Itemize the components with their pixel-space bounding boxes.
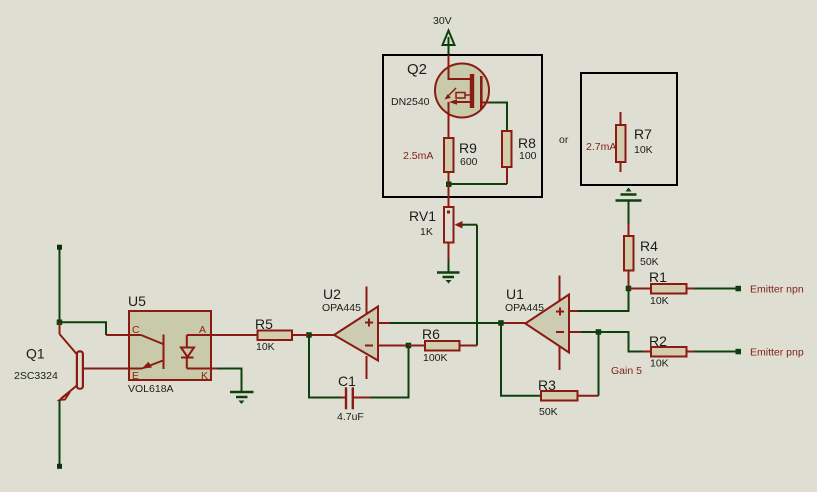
wire U1 - input (569, 331, 581, 333)
capacitor C1 (309, 335, 409, 423)
resistor R7 (616, 112, 653, 172)
resistor R5 (211, 316, 309, 353)
svg-text:10K: 10K (650, 295, 669, 307)
ground symbol (inverted) below R7 box (616, 188, 642, 225)
wire junction down to U1 + input (578, 289, 629, 312)
svg-text:50K: 50K (640, 256, 659, 268)
wire RV1 wiper down to R6 right (476, 225, 478, 346)
wire C pin stub (106, 334, 129, 336)
terminal Emitter pnp (736, 349, 742, 355)
svg-text:2SC3324: 2SC3324 (14, 370, 58, 382)
svg-text:Emitter npn: Emitter npn (750, 284, 804, 296)
svg-text:100K: 100K (423, 352, 448, 364)
svg-text:R9: R9 (459, 140, 477, 156)
subcircuit box Q2 (383, 55, 542, 197)
wire U5 K pin to ground (211, 368, 217, 370)
wire U2 output (309, 334, 334, 336)
svg-text:30V: 30V (433, 15, 452, 27)
svg-text:600: 600 (460, 156, 478, 168)
wire U1 output to node (501, 322, 525, 324)
node R6 left / C1 (406, 343, 412, 349)
op-amp U1 (505, 276, 569, 371)
wire gate of Q2 to R8 (489, 103, 507, 132)
svg-text:50K: 50K (539, 406, 558, 418)
junction Q1 collector (57, 320, 63, 326)
wire node down to R3 (501, 323, 541, 396)
wire R9 junction down to RV1 (448, 184, 450, 207)
svg-text:Q2: Q2 (407, 61, 427, 78)
resistor R3 (538, 377, 599, 418)
node U1 minus (596, 329, 602, 335)
wire U1 + input (569, 310, 578, 312)
svg-text:R6: R6 (422, 326, 440, 342)
transistor Q2 (depletion MOSFET) (435, 55, 489, 138)
svg-text:U5: U5 (128, 293, 146, 309)
subcircuit box R7 (or) (581, 73, 677, 185)
svg-text:E: E (132, 370, 139, 382)
terminal Emitter npn (736, 286, 742, 292)
svg-text:Gain 5: Gain 5 (611, 365, 642, 377)
optocoupler U5 (128, 293, 211, 395)
svg-text:10K: 10K (650, 358, 669, 370)
potentiometer RV1 (409, 207, 477, 259)
wire 30V to Q2 box (448, 37, 450, 55)
svg-text:C1: C1 (338, 373, 356, 389)
wire U2 + input to U1 output node (378, 322, 390, 324)
junction R4/R1 (626, 286, 632, 292)
ground below U5 K (230, 392, 254, 404)
svg-text:10K: 10K (256, 341, 275, 353)
resistor R8 (502, 131, 537, 184)
node U1 output (498, 320, 504, 326)
svg-text:R2: R2 (649, 333, 667, 349)
svg-text:or: or (559, 134, 569, 146)
svg-text:VOL618A: VOL618A (128, 383, 174, 395)
wire RV1 bottom to ground (448, 259, 450, 272)
svg-text:10K: 10K (634, 144, 653, 156)
svg-text:Emitter pnp: Emitter pnp (750, 347, 804, 359)
svg-text:Q1: Q1 (26, 346, 45, 362)
resistor R4 (624, 224, 659, 289)
wire R9 bottom to R8 bottom (449, 183, 508, 185)
svg-text:1K: 1K (420, 226, 433, 238)
svg-text:R7: R7 (634, 126, 652, 142)
svg-text:RV1: RV1 (409, 208, 436, 224)
ground below RV1 (437, 273, 460, 284)
junction R9/R8 (446, 182, 452, 188)
wire R2 to terminal (694, 351, 737, 353)
wire R3 right up to node (598, 332, 600, 396)
svg-text:OPA445: OPA445 (322, 302, 361, 314)
svg-text:U2: U2 (323, 286, 341, 302)
resistor R6 (409, 326, 478, 364)
wire R1 to terminal (694, 288, 737, 290)
resistor R9 (444, 117, 478, 184)
svg-text:R1: R1 (649, 269, 667, 285)
transistor Q1 (14, 245, 129, 469)
svg-text:R3: R3 (538, 377, 556, 393)
resistor R1 (629, 269, 695, 307)
node U2 output / R5 (306, 332, 312, 338)
svg-text:K: K (201, 370, 208, 382)
wire node to R2 (599, 332, 652, 352)
wire U5 C pin to Q1 collector net (60, 322, 107, 335)
svg-text:2.5mA: 2.5mA (403, 150, 433, 162)
wire U2 - input to R6 node (378, 345, 409, 347)
svg-text:R5: R5 (255, 316, 273, 332)
svg-text:100: 100 (519, 150, 537, 162)
svg-text:2.7mA: 2.7mA (586, 141, 616, 153)
svg-text:U1: U1 (506, 286, 524, 302)
svg-text:R8: R8 (518, 135, 536, 151)
svg-text:DN2540: DN2540 (391, 96, 430, 108)
power symbol 30V arrow (443, 31, 455, 46)
svg-text:4.7uF: 4.7uF (337, 411, 364, 423)
resistor R2 (649, 333, 694, 370)
svg-text:OPA445: OPA445 (505, 302, 544, 314)
svg-text:R4: R4 (640, 238, 658, 254)
op-amp U2 (322, 286, 378, 379)
